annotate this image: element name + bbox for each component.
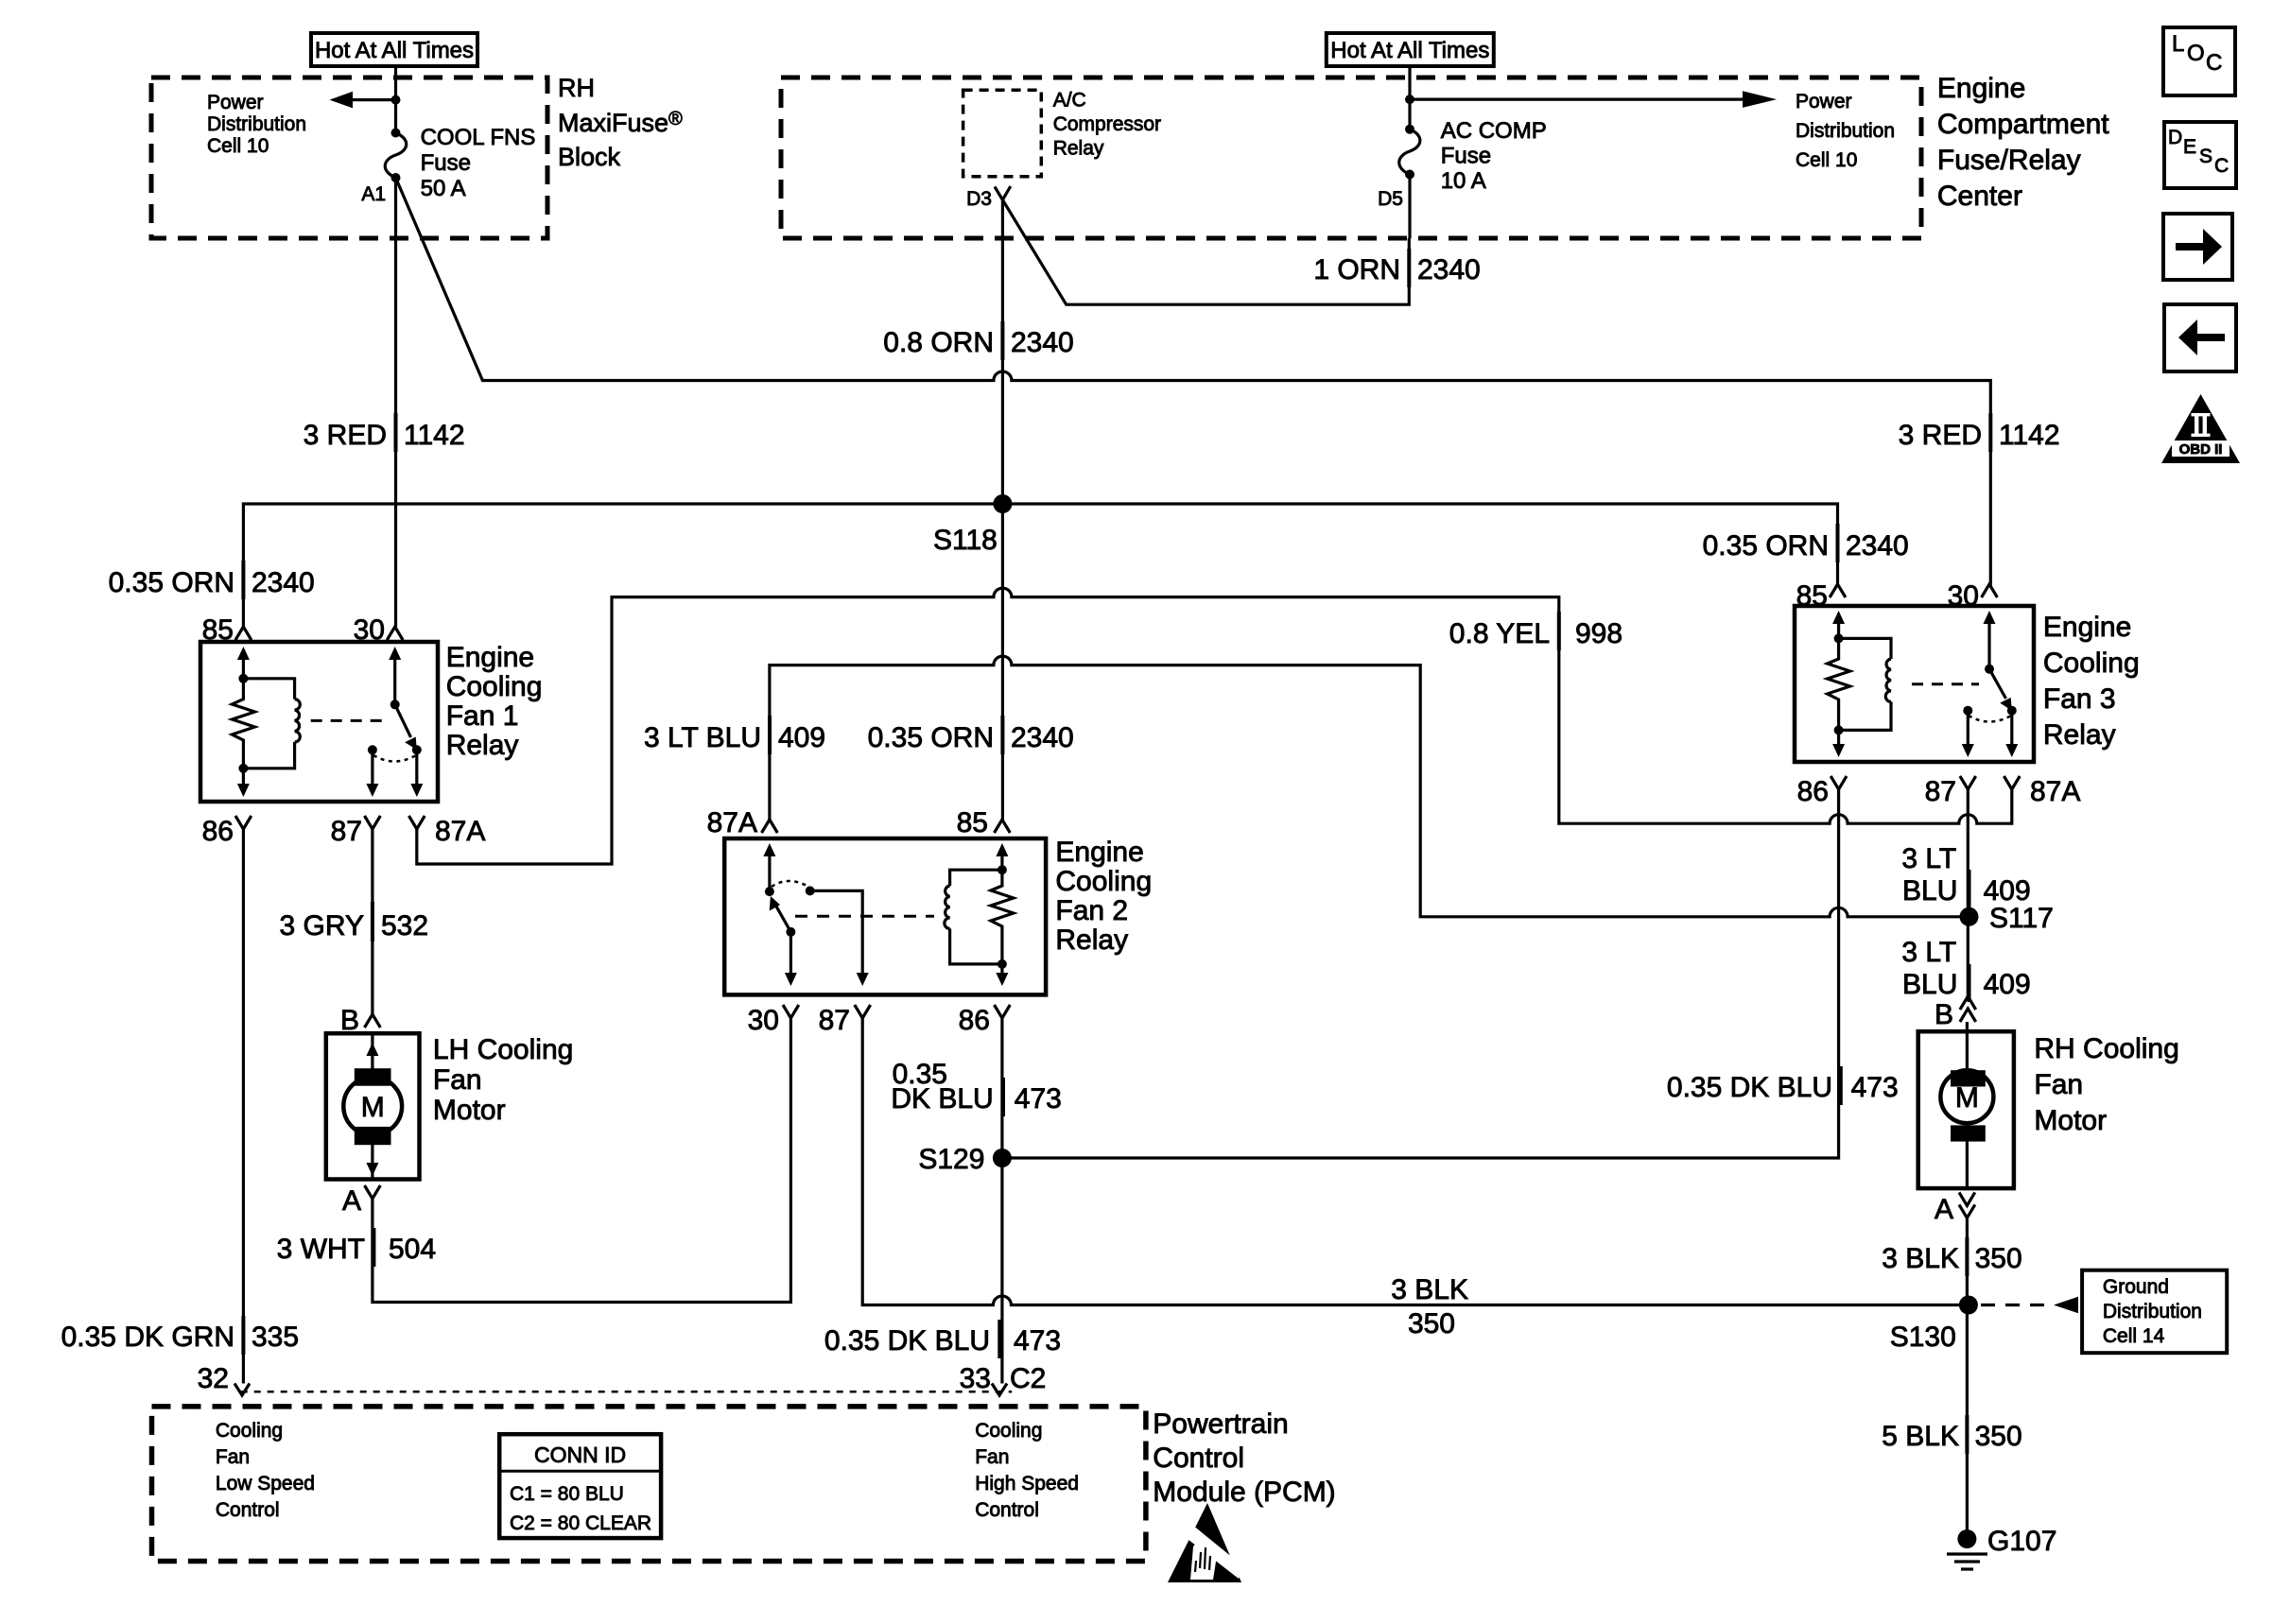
svg-text:B: B [1935, 999, 1953, 1030]
label: Engine Cooling Fan 1 Relay [446, 642, 543, 761]
svg-text:Control: Control [975, 1499, 1039, 1521]
pin 85 chevron (top) [235, 627, 252, 640]
svg-text:Module (PCM): Module (PCM) [1153, 1477, 1335, 1508]
wire: LH motor A down and right to relay2 pin 30 (3 WHT 504) [373, 1018, 791, 1303]
wire: relay3 87 down through S117 to RH motor B (3 LT BLU 409) [1967, 789, 1969, 997]
svg-text:2340: 2340 [1417, 254, 1481, 285]
PCM connector face line (C2) [241, 1391, 1012, 1393]
Engine Compartment Fuse/Relay Center dashed box [781, 78, 1921, 238]
icon: OBD II triangle [2161, 394, 2240, 463]
svg-text:33: 33 [960, 1363, 991, 1394]
svg-text:M: M [361, 1092, 385, 1123]
dashed actuator link [311, 719, 389, 722]
svg-text:A: A [342, 1185, 361, 1217]
svg-text:MaxiFuse®: MaxiFuse® [558, 109, 683, 137]
dashed actuator link [795, 915, 934, 918]
svg-text:Fan 1: Fan 1 [446, 700, 519, 732]
wire: relay1 87A to relay3 87A (0.8 YEL 998), hops over ORN and fan wires [417, 588, 2012, 864]
relay K2: Engine Cooling Fan 2 Relay [707, 807, 1046, 1036]
svg-text:32: 32 [198, 1363, 229, 1394]
svg-text:BLU: BLU [1902, 875, 1957, 907]
svg-text:S117: S117 [1989, 903, 2054, 934]
svg-text:335: 335 [252, 1322, 299, 1353]
svg-text:0.8 ORN: 0.8 ORN [883, 327, 994, 358]
svg-text:Fan: Fan [975, 1446, 1009, 1468]
svg-text:30: 30 [748, 1005, 779, 1036]
pin 87A chevron (bottom) [2004, 776, 2020, 789]
svg-text:L: L [2172, 31, 2184, 57]
label: RH MaxiFuse(R) Block [558, 74, 683, 171]
svg-text:Fan 2: Fan 2 [1055, 895, 1128, 926]
pin 33 / C2 labels [960, 1363, 1047, 1394]
switch blade to pin 30 [775, 905, 790, 932]
svg-text:0.35 DK BLU: 0.35 DK BLU [1667, 1072, 1832, 1103]
svg-text:Relay: Relay [2043, 719, 2116, 751]
svg-text:Engine: Engine [1937, 73, 2025, 104]
fuse AC COMP 10 A [1399, 125, 1420, 180]
motor M2: RH Cooling Fan Motor [1918, 996, 2014, 1225]
pin 86 chevron (bottom) [1831, 776, 1847, 789]
svg-text:86: 86 [1797, 776, 1829, 807]
dashed actuator link [1912, 682, 1979, 685]
svg-text:409: 409 [1984, 875, 2031, 907]
svg-text:Relay: Relay [1053, 138, 1104, 160]
svg-text:Control: Control [216, 1499, 280, 1521]
wire: ORN rail S118 to relay1 85 and relay3 85 [243, 504, 1837, 628]
wire: fuse to D5 [1408, 175, 1411, 239]
svg-text:A1: A1 [361, 183, 386, 205]
label: Cooling Fan Low Speed Control [216, 1420, 315, 1521]
label: Engine Cooling Fan 2 Relay [1055, 837, 1152, 956]
icon: DESC box [2164, 122, 2236, 188]
label: COOL FNS Fuse 50 A [421, 125, 536, 201]
Hot At All Times label box (left) [311, 33, 477, 66]
coil branch arrow down (pin 86 side) [242, 769, 245, 786]
svg-text:350: 350 [1975, 1421, 2022, 1452]
svg-text:3 BLK: 3 BLK [1882, 1243, 1959, 1274]
node: S130 splice [1959, 1296, 1978, 1315]
pin 85 chevron (top) [995, 820, 1011, 833]
pin 87 chevron (bottom) [855, 1005, 871, 1018]
wire: RH motor A down to S130 and G107 (3 BLK / 5 BLK 350) [1966, 1218, 1969, 1539]
svg-text:Compressor: Compressor [1053, 113, 1161, 135]
svg-text:BLU: BLU [1902, 969, 1957, 1000]
svg-text:Fan: Fan [2034, 1069, 2083, 1100]
svg-text:Cooling: Cooling [1055, 866, 1152, 897]
svg-text:87: 87 [1925, 776, 1956, 807]
svg-text:0.8 YEL: 0.8 YEL [1449, 618, 1550, 649]
Hot At All Times label box (right) [1327, 33, 1494, 66]
svg-text:86: 86 [202, 816, 234, 847]
pin 86 chevron (bottom) [995, 1005, 1011, 1018]
svg-text:Engine: Engine [2043, 612, 2131, 643]
svg-text:LH Cooling: LH Cooling [433, 1034, 573, 1065]
svg-text:O: O [2187, 41, 2205, 66]
svg-text:Fuse/Relay: Fuse/Relay [1937, 145, 2081, 176]
svg-text:Relay: Relay [1055, 924, 1128, 956]
label: 0.35 ORN 2340 (right) [1703, 524, 1909, 562]
svg-text:Hot At All Times: Hot At All Times [315, 38, 474, 63]
svg-text:S: S [2199, 146, 2212, 167]
pin B inline connector double chevron [1960, 996, 1976, 1022]
label: 3 RED 1142 (right) [1899, 413, 2060, 452]
wire: Hot At All Times feed into MaxiFuse block [394, 66, 397, 133]
svg-text:409: 409 [778, 722, 825, 753]
coil L (relay 3) [1839, 638, 1891, 730]
svg-text:Powertrain: Powertrain [1153, 1408, 1288, 1440]
svg-text:0.35 ORN: 0.35 ORN [868, 722, 994, 753]
svg-text:Power: Power [1796, 91, 1852, 112]
svg-text:Fuse: Fuse [1441, 144, 1491, 169]
label: 3 LT BLU 409 (relay2 87A) [644, 716, 825, 754]
pin D3 label and chevron [966, 186, 1011, 210]
svg-text:5 BLK: 5 BLK [1882, 1421, 1959, 1452]
svg-text:High Speed: High Speed [975, 1473, 1079, 1494]
svg-text:3 RED: 3 RED [304, 420, 387, 451]
svg-text:Motor: Motor [433, 1095, 506, 1126]
label: 3 BLK 350 (right) [1882, 1237, 2021, 1276]
coil branch arrow up (pin 85 side) [237, 647, 250, 660]
label: 0.35 ORN 2340 (left) [109, 561, 315, 599]
wire: 3 RED 1142 from fuse A1 down to relay 1 pin 30 [394, 178, 397, 628]
svg-text:CONN ID: CONN ID [534, 1443, 626, 1467]
coil L (relay 1) [243, 679, 300, 769]
svg-text:OBD II: OBD II [2179, 441, 2223, 458]
wire arrow to Power Distribution Cell 10 (right) [1410, 91, 1777, 108]
svg-text:3 RED: 3 RED [1899, 420, 1982, 451]
wire: A1 diagonal branch across top to relay 3 pin 30 (hop over ORN vertical) [396, 178, 1991, 586]
svg-text:C1 = 80 BLU: C1 = 80 BLU [510, 1483, 624, 1505]
svg-text:350: 350 [1408, 1308, 1455, 1339]
wire arrow to Power Distribution Cell 10 [330, 92, 396, 109]
svg-text:473: 473 [1014, 1325, 1061, 1356]
svg-text:Engine: Engine [446, 642, 534, 673]
pin 33 chevron into PCM [992, 1384, 1007, 1396]
label: 3 GRY 532 [280, 902, 429, 942]
svg-text:3 WHT: 3 WHT [277, 1234, 365, 1265]
label: A/C Compressor Relay [1053, 90, 1161, 160]
svg-text:Relay: Relay [446, 730, 519, 761]
svg-text:87A: 87A [435, 816, 485, 847]
svg-text:Power: Power [207, 92, 264, 113]
pin 87A chevron (top) [762, 820, 778, 833]
pin 85 chevron (top) [1830, 584, 1846, 597]
icon: left arrow box [2164, 304, 2236, 371]
label: Cooling Fan High Speed Control [975, 1420, 1079, 1521]
node: junction dot above AC COMP fuse [1405, 95, 1414, 104]
svg-text:COOL FNS: COOL FNS [421, 125, 536, 150]
box: Ground Distribution Cell 14 [2082, 1270, 2227, 1354]
pin 87 chevron (bottom) [1960, 776, 1976, 789]
wire: relay2 87A to S117 (3 LT BLU 409), hops over ORN and fan1 86 wire [770, 656, 1969, 917]
svg-text:504: 504 [389, 1234, 436, 1265]
pin 87A chevron (bottom) [408, 816, 425, 829]
svg-text:S129: S129 [918, 1144, 984, 1175]
Powertrain Control Module dashed box [152, 1407, 1146, 1562]
icon: LOC box [2163, 27, 2235, 95]
svg-text:D5: D5 [1378, 188, 1403, 210]
svg-text:Control: Control [1153, 1443, 1244, 1474]
svg-text:A/C: A/C [1053, 90, 1086, 112]
node: junction dot at power distribution branch [391, 95, 401, 105]
wire: D3 diagonal to D5 drop (1 ORN 2340) [1002, 199, 1409, 304]
svg-text:C: C [2214, 155, 2229, 177]
label: 3 BLK 350 (center, split) [1391, 1274, 1468, 1339]
svg-text:E: E [2183, 136, 2196, 158]
label: Powertrain Control Module (PCM) [1153, 1408, 1335, 1508]
svg-text:3 LT: 3 LT [1901, 843, 1956, 874]
svg-text:RH: RH [558, 74, 595, 102]
motor M1: LH Cooling Fan Motor [326, 1005, 420, 1217]
wire: relay2 86 down to PCM pin 33 (0.35 DK BLU 473) with S129 [1000, 1018, 1003, 1384]
relay K1: Engine Cooling Fan 1 Relay [200, 614, 485, 847]
svg-text:87A: 87A [2030, 776, 2080, 807]
svg-text:C2 = 80 CLEAR: C2 = 80 CLEAR [510, 1512, 651, 1534]
coil/resistor arrow up (pin 85 side) [996, 843, 1008, 856]
svg-text:Ground: Ground [2103, 1276, 2169, 1298]
svg-text:998: 998 [1575, 618, 1622, 649]
resistor R (relay 2) [991, 870, 1014, 964]
dashed pivot arc [772, 881, 808, 887]
pin 30 chevron (top) [1982, 584, 1998, 597]
svg-text:Fan 3: Fan 3 [2043, 683, 2116, 715]
pin 87A exit arrow [2010, 711, 2013, 746]
svg-text:3 BLK: 3 BLK [1391, 1274, 1468, 1305]
svg-text:G107: G107 [1987, 1526, 2056, 1557]
label: 0.35 DK BLU 473 (two-line, above S129) [891, 1059, 1062, 1116]
pin 32 chevron into PCM [234, 1384, 250, 1396]
brush (bottom) [1951, 1125, 1986, 1141]
svg-text:2340: 2340 [1011, 327, 1074, 358]
dashed contact arc [373, 755, 416, 762]
label: 0.8 ORN 2340 [883, 321, 1073, 360]
label: Engine Compartment Fuse/Relay Center [1937, 73, 2109, 212]
relay K3: Engine Cooling Fan 3 Relay [1795, 580, 2080, 807]
svg-text:473: 473 [1851, 1072, 1899, 1103]
icon: ESD warning triangle [1168, 1503, 1243, 1582]
svg-text:85: 85 [957, 807, 988, 838]
pin A chevron [365, 1185, 381, 1199]
svg-text:Cooling: Cooling [2043, 648, 2140, 679]
svg-text:D3: D3 [966, 188, 992, 210]
pin 87 exit arrow [371, 750, 373, 786]
svg-text:Fan: Fan [216, 1446, 250, 1468]
svg-text:50 A: 50 A [421, 176, 466, 201]
svg-text:M: M [1955, 1082, 1979, 1114]
pin B chevron [365, 1014, 381, 1028]
coil L (relay 2) [945, 870, 1002, 964]
fuse COOL FNS 50 A [385, 129, 407, 183]
label: 0.35 ORN 2340 (center) [868, 716, 1074, 754]
A/C Compressor Relay dashed box [963, 90, 1042, 177]
stationary contact dot and lead to pin 87 [806, 886, 815, 895]
svg-text:Center: Center [1937, 181, 2022, 212]
svg-text:2340: 2340 [252, 567, 315, 598]
label: 0.35 DK BLU 473 (right, on relay3 86 wire) [1667, 1066, 1899, 1105]
label: 3 WHT 504 [277, 1228, 436, 1267]
wire: Hot At All Times feed into fuse/relay center [1408, 66, 1411, 130]
svg-text:350: 350 [1975, 1243, 2022, 1274]
svg-text:D: D [2168, 127, 2182, 148]
svg-text:1142: 1142 [1999, 420, 2060, 451]
pin 87 chevron (bottom) [365, 816, 381, 829]
wire: relay1 86 down to PCM pin 32 (0.35 DK GRN 335) [242, 829, 245, 1384]
svg-text:87: 87 [331, 816, 362, 847]
node: S129 splice [993, 1149, 1012, 1167]
svg-text:87A: 87A [707, 807, 757, 838]
svg-text:Motor: Motor [2034, 1105, 2107, 1136]
svg-text:Cooling: Cooling [216, 1420, 283, 1442]
svg-text:1 ORN: 1 ORN [1313, 254, 1400, 285]
label: LH Cooling Fan Motor [433, 1034, 573, 1126]
svg-text:RH Cooling: RH Cooling [2034, 1033, 2178, 1064]
svg-text:0.35 ORN: 0.35 ORN [1703, 530, 1829, 561]
pin 30 chevron (bottom) [783, 1005, 799, 1018]
svg-text:Cell 10: Cell 10 [207, 135, 269, 157]
svg-text:S130: S130 [1890, 1322, 1956, 1353]
svg-text:Fan: Fan [433, 1064, 482, 1096]
svg-text:Cell 10: Cell 10 [1796, 149, 1857, 171]
svg-text:Fuse: Fuse [421, 150, 471, 176]
coil branch arrow up (pin 85 side) [1832, 611, 1845, 624]
armature circle [1940, 1070, 1993, 1123]
brush (bottom) [355, 1127, 391, 1145]
svg-text:3 LT: 3 LT [1901, 937, 1956, 968]
label: 3 LT BLU 409 (below S117) [1901, 937, 2030, 1002]
label: AC COMP Fuse 10 A [1441, 118, 1547, 194]
brush (top) [1951, 1070, 1986, 1086]
svg-text:Low Speed: Low Speed [216, 1473, 315, 1494]
wire: relay2 87 down, right to S130 (3 BLK 350), hop over DK BLU [862, 1018, 1969, 1305]
label: 5 BLK 350 [1882, 1415, 2021, 1454]
switch arm (pin 30 to 87A) [389, 647, 401, 660]
ground G107 [1947, 1526, 2056, 1569]
label: 0.35 DK BLU 473 (above PCM pin 33) [824, 1320, 1061, 1358]
svg-text:Block: Block [558, 143, 621, 171]
svg-text:Distribution: Distribution [2103, 1301, 2202, 1322]
node: S117 splice [1960, 907, 1979, 926]
wire: dashed link to Ground Distribution Cell 14 with left arrow [1981, 1297, 2078, 1314]
svg-text:10 A: 10 A [1441, 168, 1486, 194]
label: Power Distribution Cell 10 (right) [1796, 91, 1895, 171]
svg-text:Hot At All Times: Hot At All Times [1330, 38, 1489, 63]
svg-text:409: 409 [1984, 969, 2031, 1000]
svg-text:AC COMP: AC COMP [1441, 118, 1547, 144]
svg-text:30: 30 [1948, 580, 1979, 612]
svg-text:3 LT BLU: 3 LT BLU [644, 722, 761, 753]
svg-text:2340: 2340 [1846, 530, 1909, 561]
label: 1 ORN 2340 [1313, 249, 1480, 287]
svg-text:C2: C2 [1010, 1363, 1046, 1394]
brush (top) [355, 1068, 391, 1086]
svg-text:87: 87 [819, 1005, 850, 1036]
svg-text:85: 85 [1796, 580, 1828, 612]
label: Engine Cooling Fan 3 Relay [2043, 612, 2140, 751]
label: Power Distribution Cell 10 (left) [207, 92, 306, 157]
svg-text:1142: 1142 [404, 420, 465, 451]
contact 87 dot [368, 745, 377, 754]
svg-text:0.35 DK BLU: 0.35 DK BLU [824, 1325, 990, 1356]
pin 87A exit arrow [415, 750, 418, 786]
svg-text:30: 30 [354, 614, 385, 646]
icon: right arrow box [2163, 214, 2232, 280]
label: RH Cooling Fan Motor [2034, 1033, 2178, 1136]
RH MaxiFuse Block dashed box [151, 78, 547, 238]
svg-text:A: A [1935, 1194, 1953, 1225]
label: 0.8 YEL 998 [1449, 612, 1622, 650]
svg-text:S118: S118 [933, 525, 998, 556]
svg-text:2340: 2340 [1011, 722, 1074, 753]
svg-text:Engine: Engine [1055, 837, 1143, 868]
resistor R (relay 3) [1828, 638, 1850, 730]
switch arm (pin 30 to 87A) [1984, 611, 1996, 624]
svg-text:C: C [2206, 50, 2222, 76]
svg-text:Distribution: Distribution [1796, 120, 1895, 142]
svg-text:Cell 14: Cell 14 [2103, 1325, 2165, 1347]
svg-text:86: 86 [959, 1005, 990, 1036]
pin A inline connector double chevron [1959, 1192, 1975, 1218]
wire: relay1 87 down to LH fan motor B (3 GRY 532) [371, 829, 373, 1014]
svg-text:0.35 DK GRN: 0.35 DK GRN [61, 1322, 234, 1353]
dashed contact arc [1969, 716, 2011, 722]
node: S118 splice [993, 494, 1012, 513]
svg-text:532: 532 [381, 910, 428, 942]
pin 87 exit arrow [1967, 711, 1969, 746]
svg-text:0.35 ORN: 0.35 ORN [109, 567, 234, 598]
svg-text:3 GRY: 3 GRY [280, 910, 365, 942]
pin 30 chevron (top) [387, 627, 403, 640]
svg-text:Cooling: Cooling [975, 1420, 1042, 1442]
armature circle [343, 1077, 402, 1135]
label: 3 LT BLU 409 (above S117) [1901, 843, 2030, 907]
svg-text:Distribution: Distribution [207, 113, 306, 135]
table: CONN ID [499, 1434, 661, 1538]
svg-text:Compartment: Compartment [1937, 109, 2109, 140]
wire: D3 to S118 vertical (0.8 ORN 2340) [1001, 199, 1004, 820]
svg-text:85: 85 [202, 614, 234, 646]
resistor R (relay 1 coil suppressor) [232, 679, 254, 769]
svg-text:473: 473 [1015, 1083, 1062, 1114]
switch arm arrow up to 87A [763, 843, 775, 856]
wire: S129 branch right and up to relay3 pin 86 (0.35 DK BLU 473) [1002, 789, 1839, 1158]
label: 3 RED 1142 (left) [304, 413, 465, 452]
label: 0.35 DK GRN 335 [61, 1316, 299, 1355]
svg-text:DK BLU: DK BLU [891, 1083, 993, 1114]
pin 86 chevron (bottom) [235, 816, 252, 829]
svg-text:Cooling: Cooling [446, 671, 543, 702]
contact 87A dot [412, 745, 422, 754]
